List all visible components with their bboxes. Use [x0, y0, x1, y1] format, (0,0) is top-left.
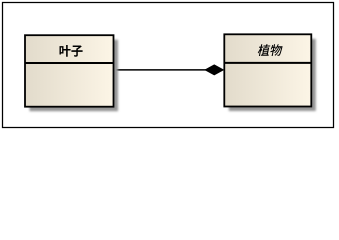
composition diamond at 植物 end: [204, 64, 224, 75]
class box 叶子: [25, 35, 114, 107]
class 叶子 drop shadow: [30, 40, 119, 112]
diagram frame border: [3, 3, 334, 128]
class box 植物: [224, 34, 311, 106]
abstract class name text 植物 (italic): [258, 44, 283, 56]
composition link wire: [114, 69, 207, 71]
class 植物 drop shadow: [229, 39, 316, 111]
class name text 叶子: [60, 45, 83, 57]
class 叶子 name compartment separator: [25, 62, 114, 64]
class 植物 name compartment separator: [224, 62, 311, 64]
